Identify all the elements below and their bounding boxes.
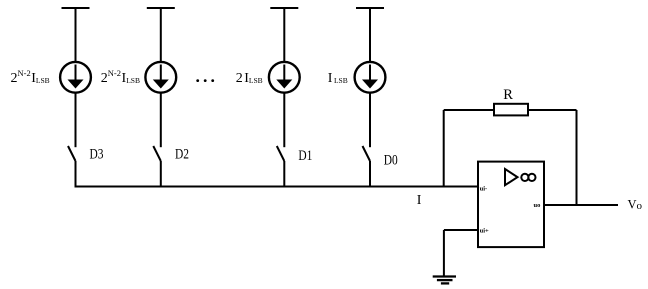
ellipsis dots	[196, 79, 214, 82]
supply terminal T2	[147, 8, 175, 63]
switch S3 (D3)	[68, 146, 76, 161]
wire S3 to bus	[75, 161, 77, 187]
svg-text:I: I	[417, 193, 422, 208]
bus wire (summing node I)	[75, 186, 478, 188]
wire CS0 to switch S0	[369, 93, 371, 147]
current source CS0	[355, 62, 386, 93]
ground	[433, 277, 456, 284]
wire CS2 to switch S2	[160, 93, 162, 147]
svg-text:uo: uo	[534, 202, 541, 209]
supply terminal T3	[62, 8, 90, 63]
wire S1 to bus	[283, 161, 285, 187]
wire to ground	[443, 230, 445, 277]
current source CS1	[269, 62, 300, 93]
wire CS1 to switch S1	[283, 93, 285, 147]
wire non-inverting input	[444, 229, 478, 231]
switch S1 (D1)	[277, 146, 285, 161]
svg-text:D3: D3	[90, 146, 104, 162]
svg-text:D1: D1	[298, 148, 312, 164]
supply terminal T0	[356, 8, 384, 63]
wire CS3 to switch S3	[75, 93, 77, 147]
wire output	[545, 204, 619, 206]
svg-text:ui-: ui-	[480, 185, 488, 192]
svg-text:ui+: ui+	[480, 228, 489, 235]
op-amp triangle symbol	[505, 169, 518, 185]
op-amp infinity symbol	[521, 174, 535, 181]
op-amp U1 body	[478, 162, 544, 248]
svg-text:D2: D2	[175, 146, 189, 162]
wire resistor to right vertical	[528, 109, 577, 111]
switch S2 (D2)	[153, 146, 161, 161]
wire feedback right vertical	[576, 110, 578, 206]
svg-text:R: R	[503, 87, 513, 103]
svg-text:D0: D0	[384, 153, 398, 169]
resistor R	[494, 104, 528, 116]
wire feedback left vertical	[443, 110, 445, 187]
current source CS3	[60, 62, 91, 93]
wire S0 to bus	[369, 161, 371, 187]
wire S2 to bus	[160, 161, 162, 187]
wire feedback to resistor	[444, 109, 494, 111]
supply terminal T1	[270, 8, 298, 63]
current source CS2	[145, 62, 176, 93]
switch S0 (D0)	[363, 146, 371, 161]
svg-text:Vo: Vo	[628, 197, 643, 212]
